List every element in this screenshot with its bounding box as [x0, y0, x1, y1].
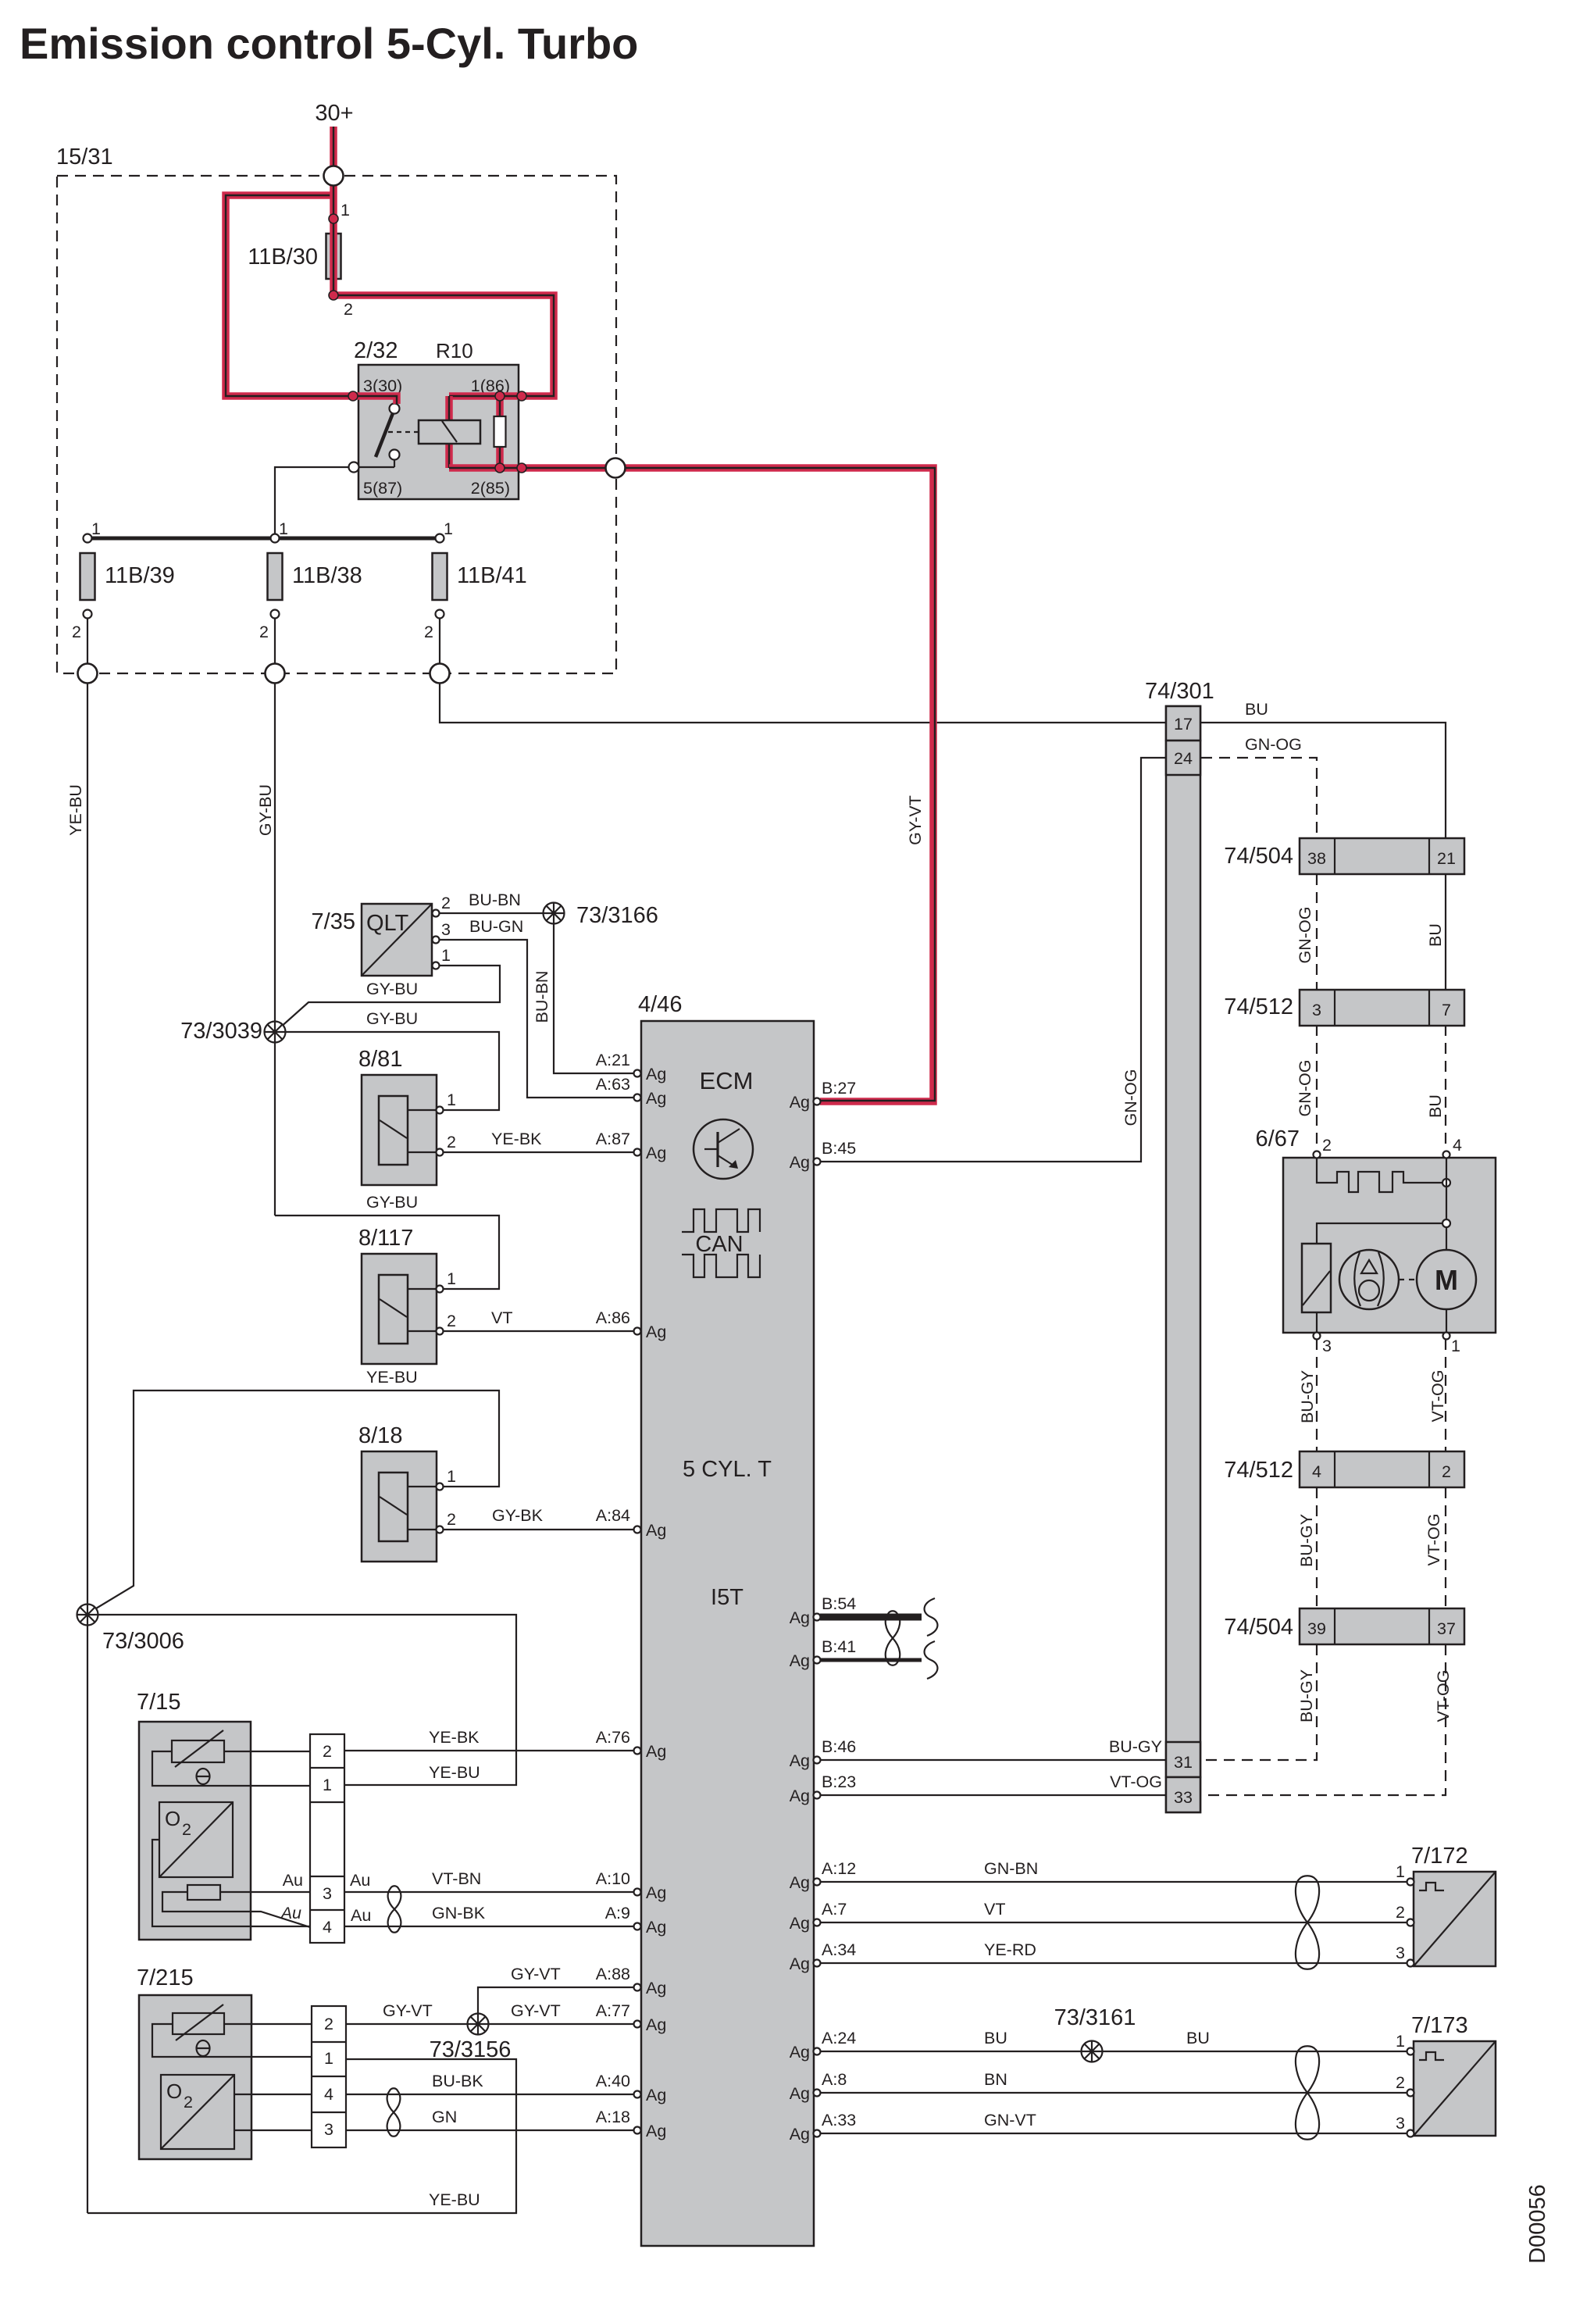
6/67 pin 4 — [1443, 1151, 1450, 1158]
relay pin 5(87) terminal — [349, 462, 359, 473]
svg-text:Au: Au — [280, 1904, 301, 1922]
svg-text:73/3166: 73/3166 — [576, 903, 658, 928]
6/67 pin 3 — [1314, 1333, 1321, 1340]
twisted wires 7/172 — [1296, 1876, 1319, 1969]
ECM pin A:33 — [790, 2125, 821, 2144]
svg-text:74/512: 74/512 — [1224, 994, 1293, 1019]
svg-text:VT-OG: VT-OG — [1425, 1514, 1443, 1566]
svg-text:GN-OG: GN-OG — [1296, 907, 1314, 964]
ECM pin B:23 — [790, 1772, 857, 1805]
node 11B/41 wire on 15/31 boundary — [430, 664, 450, 684]
svg-text:YE-BU: YE-BU — [429, 2190, 480, 2209]
svg-text:B:27: B:27 — [822, 1079, 856, 1098]
svg-text:GN-VT: GN-VT — [984, 2111, 1036, 2129]
ECM pin B:45 — [790, 1139, 857, 1172]
svg-text:D00056: D00056 — [1525, 2184, 1550, 2264]
svg-text:2: 2 — [72, 623, 81, 641]
connector 74/301 bar — [1145, 679, 1214, 1812]
svg-text:Ag: Ag — [646, 1979, 666, 1997]
connector 74/504 — [1224, 1608, 1464, 1644]
svg-text:1: 1 — [447, 1269, 456, 1288]
svg-text:BU-GY: BU-GY — [1297, 1514, 1316, 1567]
ECM pin A:84 — [634, 1521, 667, 1540]
svg-text:Ag: Ag — [646, 1521, 666, 1540]
connector 74/504 — [1224, 838, 1464, 874]
wire VT-OG dashed 74/504 pin37 to 74/301 pin33 — [1203, 1644, 1446, 1795]
svg-text:Au: Au — [283, 1871, 303, 1890]
solenoid valve 8/81 — [358, 1047, 456, 1185]
svg-text:2: 2 — [184, 2093, 193, 2112]
svg-text:YE-BU: YE-BU — [429, 1763, 480, 1782]
svg-text:GY-BK: GY-BK — [492, 1506, 544, 1525]
wire GN-OG dashed 74/504 pin38 to 74/512 pin3 — [1316, 874, 1318, 990]
svg-text:3: 3 — [324, 2120, 333, 2139]
svg-text:33: 33 — [1174, 1788, 1193, 1807]
svg-text:BU: BU — [1426, 1094, 1445, 1118]
svg-text:5 CYL. T: 5 CYL. T — [683, 1457, 772, 1482]
svg-text:2: 2 — [259, 623, 269, 641]
svg-text:BN: BN — [984, 2070, 1007, 2089]
svg-text:1: 1 — [341, 201, 350, 220]
wire 7/15 pin3 VT-BN to ECM A:10 — [344, 1891, 637, 1893]
wire GN-OG 74/301 pin24 to ECM B:45 — [820, 758, 1165, 1162]
wire VT-OG dashed 6/67 pin1 to 74/512 pin2 — [1445, 1339, 1446, 1451]
svg-text:BU-GY: BU-GY — [1297, 1669, 1316, 1722]
svg-text:A:12: A:12 — [822, 1859, 856, 1878]
wire BU-GY dashed 74/512 pin4 to 74/504 pin39 — [1316, 1487, 1318, 1608]
svg-text:2/32: 2/32 — [354, 338, 398, 363]
svg-text:GY-VT: GY-VT — [511, 2001, 561, 2020]
splice 73/3156 — [468, 2014, 489, 2035]
red relay resistor leg — [496, 396, 504, 468]
heated output stage 7/172 — [1396, 1844, 1496, 1967]
ECM pin A:12 — [790, 1873, 821, 1892]
svg-text:A:84: A:84 — [596, 1506, 630, 1525]
svg-text:4: 4 — [1312, 1462, 1321, 1481]
ECM pin A:10 — [634, 1883, 667, 1902]
svg-text:31: 31 — [1174, 1753, 1193, 1772]
svg-text:5(87): 5(87) — [363, 479, 402, 498]
wire BU 74/504 pin21 to 74/512 pin7 — [1445, 874, 1446, 990]
ECM CAN symbol — [682, 1209, 760, 1277]
svg-text:A:88: A:88 — [596, 1965, 630, 1983]
svg-text:8/81: 8/81 — [358, 1047, 402, 1072]
svg-text:2: 2 — [1396, 1903, 1405, 1922]
svg-text:1: 1 — [444, 519, 453, 538]
wire ECM B:41 shielded — [820, 1658, 922, 1662]
svg-text:R10: R10 — [436, 339, 473, 362]
svg-text:GN-OG: GN-OG — [1121, 1069, 1140, 1126]
ECM pin A:88 — [634, 1979, 667, 1997]
connector 74/512 — [1224, 1451, 1464, 1487]
ECM pin A:77 — [634, 2015, 667, 2034]
cable end B:41 — [925, 1641, 938, 1679]
wire GN-OG dashed 74/301 pin24 to 74/504 pin38 — [1201, 758, 1317, 838]
svg-text:O: O — [165, 1807, 180, 1830]
svg-text:A:77: A:77 — [596, 2001, 630, 2020]
svg-text:A:63: A:63 — [596, 1075, 630, 1094]
svg-text:GY-BU: GY-BU — [366, 1009, 418, 1028]
6/67 sensor comb — [1317, 1158, 1450, 1192]
svg-text:2(85): 2(85) — [471, 479, 510, 498]
svg-text:BU-GY: BU-GY — [1298, 1370, 1317, 1423]
ECM pin A:8 — [790, 2084, 821, 2103]
svg-text:YE-BK: YE-BK — [491, 1130, 542, 1148]
svg-text:A:24: A:24 — [822, 2029, 856, 2047]
svg-text:A:87: A:87 — [596, 1130, 630, 1148]
svg-text:73/3006: 73/3006 — [102, 1629, 184, 1654]
wire BU 74/301 pin17 to 74/504 pin21 — [1201, 723, 1446, 838]
svg-text:VT: VT — [491, 1308, 512, 1327]
svg-text:B:46: B:46 — [822, 1737, 856, 1756]
wire 7/215 pin2 GY-VT to ECM A:77 — [346, 2023, 637, 2025]
wire BU dashed 74/512 pin7 to 6/67 pin4 — [1445, 1025, 1446, 1151]
svg-text:VT-OG: VT-OG — [1428, 1370, 1447, 1423]
svg-text:1: 1 — [447, 1091, 456, 1109]
svg-text:Ag: Ag — [790, 1153, 810, 1172]
svg-text:YE-BU: YE-BU — [366, 1368, 418, 1387]
svg-text:11B/39: 11B/39 — [105, 563, 175, 588]
svg-text:YE-BK: YE-BK — [429, 1728, 480, 1747]
wire ECM A:33 GN-VT to 7/173 pin3 — [820, 2133, 1407, 2134]
svg-text:Ag: Ag — [646, 1065, 666, 1083]
svg-text:8/117: 8/117 — [358, 1226, 413, 1251]
svg-text:Emission control 5-Cyl. Turbo: Emission control 5-Cyl. Turbo — [20, 19, 638, 68]
node YE-BU on 15/31 boundary — [78, 664, 98, 684]
svg-text:73/3039: 73/3039 — [180, 1019, 262, 1044]
svg-text:7: 7 — [1442, 1001, 1451, 1019]
wire ECM B:54 shielded — [820, 1614, 922, 1621]
wire GN-OG dashed 74/512 pin3 to 6/67 pin2 — [1316, 1025, 1318, 1151]
7/15 heater thermistor — [152, 1730, 310, 1786]
svg-text:A:76: A:76 — [596, 1728, 630, 1747]
svg-text:Ag: Ag — [790, 1751, 810, 1770]
svg-text:Ag: Ag — [790, 2043, 810, 2062]
svg-text:7/35: 7/35 — [312, 909, 355, 934]
svg-text:B:45: B:45 — [822, 1139, 856, 1158]
wire QLT pin2 BU-BN to splice 73/3166 — [439, 912, 544, 914]
svg-text:4: 4 — [324, 2085, 333, 2104]
svg-text:B:54: B:54 — [822, 1594, 856, 1613]
svg-text:2: 2 — [182, 1820, 191, 1839]
connector 74/301 pin 33 — [1166, 1777, 1200, 1812]
svg-text:30+: 30+ — [315, 101, 353, 126]
6/67 pump — [1339, 1250, 1399, 1309]
svg-text:39: 39 — [1307, 1619, 1326, 1638]
svg-text:O: O — [166, 2079, 182, 2103]
twisted wires 7/173 — [1296, 2046, 1319, 2140]
relay switch contact — [348, 404, 419, 468]
svg-text:24: 24 — [1174, 749, 1193, 768]
svg-text:Ag: Ag — [646, 1144, 666, 1162]
wire 5(87) to fuse bus — [275, 467, 348, 538]
svg-text:74/301: 74/301 — [1145, 679, 1214, 704]
svg-text:Ag: Ag — [646, 1323, 666, 1341]
svg-text:1: 1 — [1396, 2032, 1405, 2051]
svg-text:BU: BU — [1245, 700, 1268, 719]
6/67 pin 1 — [1443, 1333, 1450, 1340]
svg-text:7/172: 7/172 — [1411, 1844, 1468, 1869]
wire GY-BU main vertical — [274, 618, 276, 1216]
svg-text:2: 2 — [441, 894, 451, 912]
svg-text:GY-BU: GY-BU — [366, 1193, 418, 1212]
splice 73/3039 — [265, 1022, 286, 1043]
svg-text:74/504: 74/504 — [1224, 1615, 1293, 1640]
svg-text:Au: Au — [350, 1871, 370, 1890]
svg-text:2: 2 — [324, 2015, 333, 2033]
oil level sensor 7/35 QLT — [312, 894, 451, 976]
svg-text:A:40: A:40 — [596, 2072, 630, 2090]
svg-text:Ag: Ag — [790, 1651, 810, 1670]
svg-text:ECM: ECM — [700, 1067, 754, 1094]
svg-text:7/215: 7/215 — [137, 1965, 194, 1990]
wire ECM A:7 VT to 7/172 pin2 — [820, 1922, 1407, 1923]
cable end B:54 — [925, 1598, 938, 1636]
svg-text:BU: BU — [1426, 923, 1445, 947]
red battery feed 30+ — [330, 127, 337, 295]
svg-text:3: 3 — [1322, 1337, 1332, 1355]
ECM pin B:46 — [790, 1737, 857, 1770]
6/67 pin 2 — [1314, 1151, 1321, 1158]
svg-text:BU: BU — [984, 2029, 1007, 2047]
6/67 shutoff valve — [1302, 1244, 1331, 1333]
red relay 2(85) output GY-VT to ECM B:27 — [449, 468, 935, 1101]
svg-text:GN-OG: GN-OG — [1296, 1060, 1314, 1117]
svg-text:11B/30: 11B/30 — [248, 245, 318, 270]
svg-text:A:21: A:21 — [596, 1051, 630, 1069]
wire BU-GY dashed 74/504 pin39 to 74/301 pin31 — [1203, 1644, 1317, 1760]
red branch to relay 3(30) — [226, 195, 397, 404]
wire VT-OG dashed 74/512 pin2 to 74/504 pin37 — [1445, 1487, 1446, 1608]
svg-text:73/3156: 73/3156 — [430, 2037, 512, 2062]
wire ECM A:8 BN to 7/173 pin2 — [820, 2092, 1407, 2094]
7/215 heater thermistor — [152, 2004, 312, 2057]
fuse 11B/39 — [72, 519, 175, 641]
wire 7/215 pin3 GN to ECM A:18 — [346, 2129, 637, 2131]
connector 74/301 pin 31 — [1166, 1742, 1200, 1777]
svg-text:2: 2 — [447, 1510, 456, 1529]
svg-text:Ag: Ag — [646, 2122, 666, 2140]
ECM 4/46 body — [638, 992, 814, 2246]
svg-text:1: 1 — [1451, 1337, 1460, 1355]
ECM pin A:76 — [634, 1742, 667, 1761]
node GY-VT on 15/31 boundary — [606, 459, 626, 478]
svg-text:3: 3 — [1312, 1001, 1321, 1019]
wire ECM A:24 BU to 7/173 pin1 — [820, 2051, 1407, 2052]
svg-text:2: 2 — [447, 1133, 456, 1151]
splice 73/3006 — [77, 1605, 98, 1626]
wire 7/15 pin2 YE-BK to ECM A:76 — [344, 1750, 637, 1751]
svg-text:Ag: Ag — [790, 1955, 810, 1973]
relay resistor — [494, 416, 506, 447]
6/67 pump-motor link — [1399, 1279, 1416, 1280]
solenoid valve 8/117 — [358, 1226, 456, 1364]
svg-text:Ag: Ag — [646, 2015, 666, 2034]
svg-text:17: 17 — [1174, 715, 1193, 734]
6/67 motor M — [1417, 1250, 1476, 1333]
svg-text:3: 3 — [323, 1884, 332, 1903]
relay coil — [419, 420, 480, 444]
svg-text:1: 1 — [447, 1467, 456, 1486]
wire splice 73/3166 to ECM A:21 — [554, 923, 637, 1073]
svg-text:I5T: I5T — [711, 1585, 743, 1610]
svg-text:Ag: Ag — [646, 2086, 666, 2104]
ECM pin A:24 — [790, 2043, 821, 2062]
svg-text:GY-VT: GY-VT — [383, 2001, 433, 2020]
svg-text:YE-RD: YE-RD — [984, 1940, 1036, 1959]
connector 74/301 pin 17 — [1166, 706, 1200, 741]
svg-text:A:86: A:86 — [596, 1308, 630, 1327]
svg-text:11B/41: 11B/41 — [457, 563, 527, 588]
red fuse 11B/30 to relay 1(86) — [333, 295, 554, 396]
wire 8/18 pin2 GY-BK to ECM A:84 — [443, 1529, 637, 1530]
wire splice 73/3006 to 7/15 pin1 — [87, 1615, 516, 1785]
svg-text:Ag: Ag — [646, 1742, 666, 1761]
svg-text:4: 4 — [1453, 1136, 1462, 1155]
rear O2 sensor 7/215 — [137, 1965, 251, 2159]
ECM pin B:54 — [790, 1594, 857, 1627]
ECM pin A:18 — [634, 2122, 667, 2140]
7/15 O2 cell — [152, 1802, 310, 1926]
svg-text:BU-BN: BU-BN — [533, 971, 551, 1023]
dashed enclosure 15/31 — [57, 176, 616, 673]
svg-text:VT-OG: VT-OG — [1110, 1772, 1162, 1791]
svg-text:Ag: Ag — [790, 1873, 810, 1892]
ECM pin A:7 — [790, 1914, 821, 1933]
svg-text:Ag: Ag — [646, 1883, 666, 1902]
node GY-BU on 15/31 boundary — [266, 664, 285, 684]
ECM pin A:21 — [634, 1065, 667, 1083]
svg-text:Au: Au — [351, 1906, 371, 1925]
wire QLT pin3 BU-GN to ECM A:63 — [439, 940, 637, 1098]
splice 73/3161 — [1082, 2041, 1103, 2062]
svg-text:A:33: A:33 — [822, 2111, 856, 2129]
svg-text:Ag: Ag — [790, 2084, 810, 2103]
wire ECM A:12 GN-BN to 7/172 pin1 — [820, 1881, 1407, 1883]
svg-text:6/67: 6/67 — [1256, 1126, 1300, 1151]
svg-text:BU-BN: BU-BN — [469, 891, 521, 909]
svg-text:4: 4 — [323, 1918, 332, 1937]
connector 74/512 — [1224, 990, 1464, 1026]
7/15 connector strip — [310, 1734, 344, 1943]
svg-text:1: 1 — [1396, 1862, 1405, 1881]
svg-text:VT: VT — [984, 1900, 1005, 1919]
svg-text:38: 38 — [1307, 849, 1326, 868]
svg-text:Ag: Ag — [646, 1089, 666, 1108]
svg-text:15/31: 15/31 — [56, 145, 113, 170]
front O2 sensor 7/15 — [137, 1690, 251, 1940]
svg-text:1: 1 — [323, 1776, 332, 1794]
wire ECM A:34 YE-RD to 7/172 pin3 — [820, 1962, 1407, 1964]
svg-text:2: 2 — [424, 623, 433, 641]
ECM pin A:86 — [634, 1323, 667, 1341]
svg-text:GY-BU: GY-BU — [256, 784, 275, 836]
wire ECM B:23 VT-OG to 74/301 pin33 — [820, 1794, 1165, 1796]
svg-text:BU-GY: BU-GY — [1109, 1737, 1162, 1756]
svg-text:2: 2 — [344, 300, 353, 319]
svg-text:2: 2 — [323, 1742, 332, 1761]
svg-text:A:9: A:9 — [605, 1904, 630, 1922]
ECM pin A:87 — [634, 1144, 667, 1162]
7/215 O2 cell — [161, 2075, 312, 2149]
6/67 internal feed — [1317, 1158, 1450, 1250]
svg-text:GY-VT: GY-VT — [906, 795, 925, 845]
wire 8/117 pin2 VT to ECM A:86 — [443, 1330, 637, 1332]
fuse 11B/41 — [424, 519, 527, 641]
wire 8/81 pin2 YE-BK to ECM A:87 — [443, 1151, 637, 1153]
7/15 heater element — [162, 1885, 310, 1927]
bus bar fuse feed — [87, 537, 440, 541]
svg-text:4/46: 4/46 — [638, 992, 682, 1017]
wire 7/215 pin4 BU-BK to ECM A:40 — [346, 2094, 637, 2095]
svg-text:3: 3 — [1396, 2114, 1405, 2133]
svg-text:VT-BN: VT-BN — [432, 1869, 481, 1888]
svg-text:B:23: B:23 — [822, 1772, 856, 1791]
fuse 11B/38 — [259, 519, 362, 641]
svg-text:37: 37 — [1437, 1619, 1456, 1638]
svg-text:Ag: Ag — [790, 2125, 810, 2144]
wire 7/15 pin4 GN-BK to ECM A:9 — [344, 1926, 637, 1927]
wire QLT pin1 GY-BU to splice 73/3039 — [280, 966, 500, 1028]
svg-text:7/173: 7/173 — [1411, 2013, 1468, 2038]
svg-text:8/18: 8/18 — [358, 1423, 402, 1448]
svg-text:GN-BN: GN-BN — [984, 1859, 1038, 1878]
svg-text:A:10: A:10 — [596, 1869, 630, 1888]
svg-text:1: 1 — [324, 2049, 333, 2068]
wire BU-GY dashed 6/67 pin3 to 74/512 pin4 — [1316, 1339, 1318, 1451]
connector 74/301 pin 24 — [1166, 741, 1200, 775]
svg-text:3: 3 — [441, 920, 451, 939]
svg-text:74/504: 74/504 — [1224, 844, 1293, 869]
svg-text:2: 2 — [1396, 2073, 1405, 2092]
wire splice 73/3039 GY-BU to 8/81 pin1 — [275, 1032, 499, 1110]
solenoid valve 8/18 — [358, 1423, 456, 1562]
twisted pair 7/215 — [387, 2088, 401, 2137]
svg-text:VT-OG: VT-OG — [1434, 1670, 1453, 1722]
svg-text:BU: BU — [1186, 2029, 1210, 2047]
ECM transistor symbol — [694, 1119, 753, 1179]
svg-text:GY-VT: GY-VT — [511, 1965, 561, 1983]
ECM pin A:34 — [790, 1955, 821, 1973]
svg-text:1: 1 — [279, 519, 288, 538]
red relay coil loop — [445, 396, 453, 468]
svg-text:GN: GN — [432, 2108, 457, 2126]
svg-text:A:34: A:34 — [822, 1940, 856, 1959]
svg-text:BU-GN: BU-GN — [469, 917, 523, 936]
svg-text:QLT: QLT — [366, 911, 409, 936]
red terminal dots — [329, 214, 526, 473]
svg-text:11B/38: 11B/38 — [292, 563, 362, 588]
svg-text:BU-BK: BU-BK — [432, 2072, 483, 2090]
svg-text:GY-BU: GY-BU — [366, 980, 418, 998]
svg-text:7/15: 7/15 — [137, 1690, 180, 1715]
svg-text:M: M — [1435, 1264, 1458, 1296]
svg-text:2: 2 — [447, 1312, 456, 1330]
splice 73/3166 — [544, 903, 565, 924]
fuse 11B/30 — [248, 234, 341, 279]
node 30+ on 15/31 boundary — [324, 166, 344, 186]
svg-text:B:41: B:41 — [822, 1637, 856, 1656]
relay 2/32 R10 — [354, 338, 519, 499]
7/215 connector strip — [312, 2006, 346, 2147]
svg-text:21: 21 — [1437, 849, 1456, 868]
svg-text:73/3161: 73/3161 — [1054, 2005, 1136, 2030]
svg-text:GN-BK: GN-BK — [432, 1904, 486, 1922]
svg-text:Ag: Ag — [646, 1918, 666, 1937]
ECM pin B:27 — [790, 1079, 857, 1112]
svg-text:1: 1 — [441, 946, 451, 965]
wire YE-BU main vertical — [87, 618, 88, 2213]
